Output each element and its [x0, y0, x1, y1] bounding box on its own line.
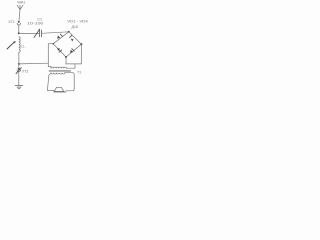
L1 adjust arrow: [7, 41, 16, 49]
terminal XT1: [17, 21, 20, 25]
wire left vertex down: [48, 44, 53, 64]
terminal XT2: [16, 68, 21, 74]
wire bottom vertex down: [65, 57, 67, 64]
wire XT1 to junction: [18, 25, 20, 33]
transformer T1 core: [49, 70, 71, 71]
svg-text:L1: L1: [21, 44, 25, 48]
wire bottom junction to bridge-left node: [19, 62, 48, 65]
ground: [15, 86, 23, 89]
node bridge left vertex: [52, 43, 54, 45]
node bottom junction: [18, 63, 20, 65]
node bridge bottom vertex: [65, 56, 67, 58]
wire secondary right to headphone: [65, 73, 75, 91]
svg-text:10-100: 10-100: [27, 22, 43, 26]
svg-text:XT1: XT1: [8, 20, 15, 24]
wire right vertex down: [80, 44, 82, 64]
wire coil to bottom junction: [18, 52, 20, 64]
wire junction step to T1 primary left: [48, 63, 51, 68]
diode VD3: [57, 48, 62, 52]
wire bottom horizontal: [66, 63, 81, 65]
svg-text:XT2: XT2: [22, 69, 28, 73]
node bridge right vertex: [80, 43, 82, 45]
wire secondary left to headphone: [47, 73, 54, 90]
coil L1: [19, 37, 20, 52]
wire XT2 to ground: [18, 72, 20, 86]
diode VD2: [70, 35, 74, 41]
diode VD4: [70, 49, 74, 53]
capacitor C1 (variable): [34, 29, 42, 38]
svg-text:T1: T1: [77, 70, 81, 74]
bridge edge bottom-right: [66, 44, 81, 57]
antenna WA1: [17, 5, 23, 9]
wire to T1 primary right: [67, 64, 76, 68]
transformer T1 secondary winding: [51, 73, 65, 74]
svg-text:WA1: WA1: [17, 0, 25, 4]
diode VD1: [57, 34, 63, 39]
bridge edge bottom-left: [53, 44, 66, 57]
bridge edge top-right: [69, 32, 82, 44]
node junction tank top: [18, 32, 20, 34]
transformer T1 primary winding: [51, 67, 66, 68]
svg-text:Д18: Д18: [72, 25, 78, 29]
headphone BF1: [54, 87, 66, 92]
wire junction to XT2: [18, 64, 20, 68]
wire junction to C1: [19, 32, 40, 34]
svg-text:VD1 - VD4: VD1 - VD4: [67, 19, 88, 23]
bridge edge top-left: [53, 32, 69, 44]
node bridge top vertex: [68, 31, 70, 33]
wire C1 to bridge top: [42, 32, 69, 34]
wire antenna to XT1: [19, 10, 20, 22]
